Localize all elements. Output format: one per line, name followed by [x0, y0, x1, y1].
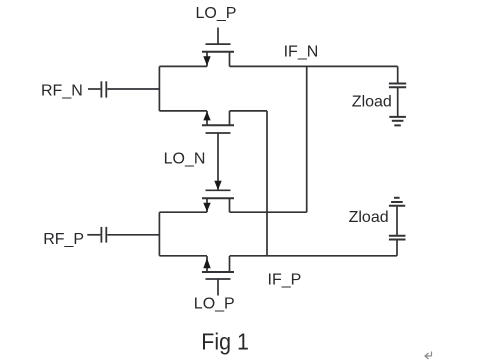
wire: M2 drain rail right — [230, 110, 268, 112]
ground (bottom Zload, inverted) — [389, 198, 405, 206]
svg-text:RF_N: RF_N — [41, 83, 83, 100]
svg-text:LO_P: LO_P — [196, 5, 237, 22]
transistor M2 (LO_N switch, RF_N to IF_P) — [202, 111, 234, 133]
wire: IF_P rail right (M4 drain to Zload bottom) — [230, 255, 398, 257]
svg-text:RF_P: RF_P — [43, 231, 84, 248]
transistor M1 (LO_P switch, RF_N to IF_N) — [202, 28, 234, 67]
svg-text:LO_P: LO_P — [194, 296, 235, 313]
wire: LO_N gate link (M2 gate to M3 gate) — [214, 133, 221, 190]
capacitor (RF_N coupling) — [88, 81, 159, 97]
label RF_P — [43, 231, 84, 248]
transistor M3 (LO_N switch, RF_P to IF_N) — [202, 190, 234, 212]
label Zload (bottom) — [349, 209, 389, 226]
wire: M3 rail left (RF_P node to M3) — [159, 211, 207, 213]
wire: RF_N node vertical — [158, 66, 160, 111]
svg-text:IF_N: IF_N — [284, 44, 319, 61]
capacitor (RF_P coupling) — [87, 227, 159, 243]
wire: IF_N vertical (top rail down to M3 rail) — [306, 66, 308, 212]
wire: RF_P node vertical — [158, 212, 160, 256]
label Zload (top) — [352, 94, 392, 111]
svg-text:LO_N: LO_N — [164, 151, 206, 168]
capacitor Zload (top) — [389, 66, 406, 117]
label LO_P (bottom) — [194, 296, 235, 313]
transistor M4 (LO_P switch, RF_P to IF_P) — [202, 256, 234, 296]
ground (top Zload) — [389, 117, 406, 126]
label RF_N — [41, 83, 83, 100]
wire: top rail right (M1 drain to IF_N / Zload) — [230, 65, 398, 67]
svg-text:IF_P: IF_P — [268, 272, 302, 289]
svg-text:Fig 1: Fig 1 — [201, 329, 249, 355]
wire: M3 drain rail right to IF_N vertical — [230, 211, 307, 213]
svg-text:Zload: Zload — [352, 94, 392, 111]
wire: top rail left (RF_N node to M1 source) — [159, 65, 207, 67]
label IF_N — [284, 44, 319, 61]
label LO_N — [164, 151, 206, 168]
capacitor Zload (bottom) — [389, 207, 406, 256]
wire: M2 rail left (RF_N node to M2) — [159, 110, 207, 112]
wire: cross connection M2 drain down to IF_P rail — [266, 111, 268, 256]
label IF_P — [268, 272, 302, 289]
label LO_P (top) — [196, 5, 237, 22]
caption Fig 1 — [201, 329, 249, 355]
pilcrow return mark (bottom right) — [425, 352, 432, 360]
svg-text:Zload: Zload — [349, 209, 389, 226]
wire: M4 rail left (RF_P node to M4) — [159, 255, 207, 257]
